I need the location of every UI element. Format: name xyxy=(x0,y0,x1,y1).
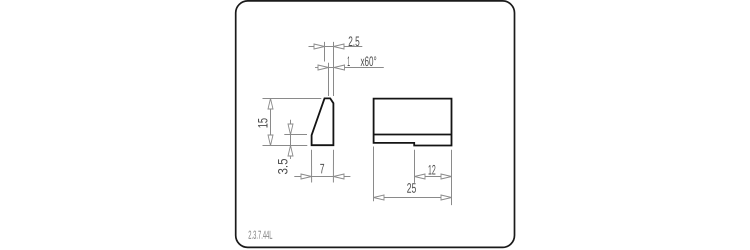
svg-text:2.5: 2.5 xyxy=(348,34,360,49)
dim 3.5 dimension line xyxy=(290,120,292,157)
dim 15 top arrow xyxy=(268,99,273,113)
dim 7 extension line left xyxy=(311,150,313,183)
dim 2.5 extension line left xyxy=(324,42,326,62)
dim 3.5 lower arrow xyxy=(288,146,293,160)
dim 15/3.5 bottom extension line xyxy=(263,145,308,147)
svg-text:1: 1 xyxy=(347,54,350,69)
dim 12 dimension line xyxy=(415,176,452,178)
dim 25 dimension line xyxy=(374,197,452,199)
dim 15 dimension line xyxy=(270,99,272,146)
dim 1x60 dimension line xyxy=(318,67,384,69)
dim 3.5 upper extension line xyxy=(284,134,307,136)
dim 15 top extension line xyxy=(263,98,322,100)
dim 15 bottom arrow xyxy=(268,132,273,146)
dim 1 extension line left xyxy=(328,63,330,96)
svg-text:3.5: 3.5 xyxy=(275,158,290,174)
svg-text:2.3.7.44L: 2.3.7.44L xyxy=(248,229,272,242)
block inner edge line xyxy=(374,134,452,136)
dim 25 left arrow xyxy=(374,195,388,200)
dim 7 left arrow xyxy=(298,174,312,179)
dim 2.5 right arrow xyxy=(334,44,348,49)
dim 3.5 upper arrow xyxy=(288,121,293,135)
dim 12 left arrow xyxy=(415,174,429,179)
dim 12 right arrow xyxy=(438,174,452,179)
svg-text:15: 15 xyxy=(256,118,271,128)
svg-text:x60°: x60° xyxy=(360,54,376,69)
wedge part outline (left view) xyxy=(312,98,334,145)
svg-text:25: 25 xyxy=(407,181,417,196)
dim 25 right arrow xyxy=(438,195,452,200)
block part outline (right view) xyxy=(374,99,452,146)
dim 12/25 extension line right xyxy=(451,150,453,205)
dim 1 left arrow xyxy=(315,65,329,70)
svg-text:7: 7 xyxy=(320,161,325,176)
dim 7 right arrow xyxy=(334,174,348,179)
dim 7 extension line right xyxy=(332,150,334,183)
dim 2.5 left arrow xyxy=(311,44,325,49)
card border xyxy=(236,1,515,248)
svg-text:12: 12 xyxy=(428,163,436,178)
dim 2.5 dimension line xyxy=(309,46,363,48)
dim 25 extension line left xyxy=(373,147,375,202)
dim 12 extension line left xyxy=(414,150,416,183)
dim 7 dimension line xyxy=(294,176,350,178)
dim 1 right arrow xyxy=(334,65,348,70)
dim 2.5/1 extension line right xyxy=(333,42,335,96)
